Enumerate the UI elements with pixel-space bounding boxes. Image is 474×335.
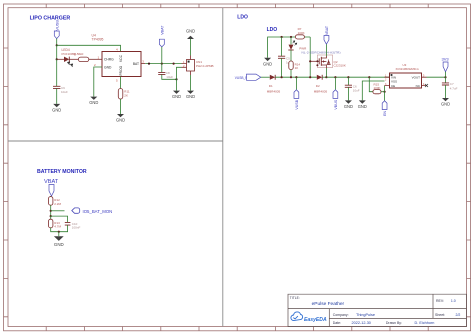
LED PWR (288, 37, 307, 50)
node (C5 bottom) (281, 76, 283, 78)
net flag 3V3 (442, 57, 450, 72)
net flag VUSB (top, LIPO) (54, 20, 59, 39)
ground (left end of rail) (263, 58, 272, 67)
node (VBAT branch) (161, 63, 163, 65)
node (CE/EN junction) (384, 91, 386, 93)
EasyEDA logo (291, 312, 327, 323)
svg-text:GND: GND (172, 94, 181, 99)
ground (below C8/CN1 pin2) (172, 91, 181, 100)
ground (below U3 VSS) (358, 100, 367, 109)
section title LIPO CHARGER (30, 16, 71, 22)
wire VUSB_P to D1 (261, 76, 270, 78)
wire Q2 drain to row (325, 68, 327, 77)
ground (battery monitor) (54, 236, 64, 247)
svg-text:CHRG: CHRG (104, 58, 114, 62)
svg-text:GND: GND (263, 61, 272, 66)
svg-text:VUSB: VUSB (295, 99, 299, 109)
net flag VUSB (below row) (294, 77, 299, 109)
svg-text:TP4095: TP4095 (92, 38, 104, 42)
svg-text:VUSB: VUSB (54, 20, 59, 31)
svg-text:100K: 100K (374, 86, 381, 90)
svg-text:CE: CE (391, 84, 395, 88)
svg-text:IO5_BAT_MON: IO5_BAT_MON (83, 209, 113, 214)
resistor R11 (118, 89, 130, 100)
wire R12 to divider node (50, 205, 52, 216)
svg-text:2/2: 2/2 (456, 313, 461, 317)
node (R14 bottom) (290, 76, 292, 78)
svg-text:EasyEDA: EasyEDA (304, 317, 327, 323)
pin number 2 (U4 GND) (94, 63, 96, 67)
node (BAT pin end) (148, 63, 150, 65)
svg-text:5: 5 (116, 79, 118, 83)
svg-text:VUSB_P: VUSB_P (235, 76, 248, 80)
net flag VBAT (battery monitor) (44, 179, 59, 196)
wire node B down to C9 (56, 59, 58, 86)
svg-text:VBUS: VBUS (334, 99, 338, 109)
svg-text:10uF: 10uF (353, 88, 360, 92)
ground (below R11) (116, 114, 125, 123)
svg-text:GND: GND (104, 65, 112, 69)
label LED4 / part number (62, 48, 84, 56)
svg-text:REV:: REV: (436, 299, 444, 303)
capacitor C7 (442, 77, 458, 98)
capacitor C8 (158, 71, 173, 79)
svg-text:VCC: VCC (119, 54, 123, 62)
wire VUSB flag to junction A (56, 39, 58, 46)
title block texts (290, 296, 461, 325)
svg-text:EN: EN (383, 111, 387, 116)
svg-text:GND: GND (52, 107, 61, 112)
svg-text:Sheet:: Sheet: (435, 313, 445, 317)
wire EN flag stub (384, 92, 386, 101)
section title LDO (inner) (267, 27, 278, 33)
svg-text:ePulse Feather: ePulse Feather (312, 301, 345, 307)
wire VBAT flag to BAT net (161, 47, 163, 64)
svg-text:4.7uF: 4.7uF (450, 86, 458, 90)
svg-text:D. Eichhorn: D. Eichhorn (415, 321, 435, 325)
net flag VBUS (below row) (333, 77, 338, 109)
svg-text:NL-2-SDRCH8064-A3(TR): NL-2-SDRCH8064-A3(TR) (302, 51, 341, 55)
wire junction A down to LED row (56, 45, 58, 59)
capacitor C5 (278, 37, 291, 77)
node (C6 on row) (347, 76, 349, 78)
ground (below CN1) (186, 91, 195, 100)
svg-text:VSS: VSS (391, 79, 397, 83)
svg-text:10uF: 10uF (166, 75, 173, 79)
wire U3 VSS to ground (362, 81, 384, 100)
wire 3V3 flag down (445, 72, 447, 77)
wire U4 PROG to R11 (120, 77, 122, 89)
node (C8/CN1 gnd join) (175, 78, 177, 80)
net label IO5_BAT_MON (72, 208, 112, 214)
pin number 1 (U4 CHRG) (98, 55, 100, 59)
node (monitor tap) (50, 210, 52, 212)
wire C10 branch top (51, 216, 68, 222)
node (Q2 gate on rail drop) (309, 60, 311, 62)
transistor Q2 (310, 55, 346, 68)
node B junction (56, 58, 58, 60)
svg-text:U3: U3 (403, 63, 407, 67)
svg-text:MBR4005: MBR4005 (314, 89, 328, 93)
svg-text:4.7M: 4.7M (54, 225, 61, 229)
node (CN1 branch) (173, 63, 175, 65)
svg-text:2K: 2K (124, 94, 128, 98)
svg-text:Company:: Company: (333, 313, 349, 317)
net flag VBAT (LDO) (324, 25, 329, 44)
svg-text:1.0: 1.0 (451, 299, 456, 303)
svg-text:GND: GND (186, 29, 195, 34)
svg-text:GND: GND (116, 118, 125, 123)
node A junction (56, 44, 58, 46)
svg-text:GND: GND (441, 102, 450, 107)
section title BATTERY MONITOR (37, 169, 87, 175)
svg-text:XC6210B332MR-G: XC6210B332MR-G (396, 67, 419, 71)
resistor R13 (49, 216, 62, 228)
ground (below C9) (52, 104, 61, 112)
svg-text:2: 2 (385, 78, 387, 81)
ground (below U4 GND pin) (89, 97, 98, 105)
wire VCC rail to U4 top (57, 45, 121, 51)
svg-text:PH2.0-2PMB: PH2.0-2PMB (196, 64, 214, 68)
net flag EN (382, 101, 387, 116)
svg-text:GND: GND (54, 242, 64, 247)
node (C5 on rail) (281, 36, 283, 38)
wire BAT net (141, 63, 182, 65)
wire rail right corner down (309, 37, 311, 77)
svg-text:1K: 1K (295, 66, 299, 70)
wire R11 to ground (120, 99, 122, 114)
label Q2 part number (302, 51, 341, 55)
wire BAT net to C8 (161, 64, 163, 73)
node (PWR LED on rail) (290, 36, 292, 38)
svg-text:GND: GND (344, 104, 353, 109)
wire CN1 top pin to inverted ground (190, 39, 192, 56)
wire tap to net label (51, 210, 65, 212)
svg-text:3V3: 3V3 (442, 57, 450, 62)
svg-text:LDO: LDO (237, 14, 248, 20)
pin number 4 (U4 VCC) (116, 47, 118, 51)
svg-text:MBR4005: MBR4005 (267, 89, 281, 93)
diode D1 (267, 75, 281, 94)
svg-text:PROG: PROG (119, 65, 123, 75)
svg-text:2.2M: 2.2M (54, 202, 61, 206)
svg-text:ThingPulse: ThingPulse (356, 313, 375, 317)
svg-text:VBAT: VBAT (325, 25, 329, 35)
op-amp U3 LDO IC body (385, 63, 427, 88)
section title LDO (outer) (237, 14, 248, 20)
ground (below C6) (344, 100, 353, 109)
resistor R14 (289, 50, 301, 77)
node (divider top) (50, 215, 52, 217)
ground (inverted, above CN1) (186, 29, 195, 39)
connector CN1 (182, 56, 214, 76)
pin number 3 (U4 BAT) (142, 60, 144, 64)
wire U3 VOUT to 3V3 (427, 76, 446, 78)
svg-text:TITLE:: TITLE: (290, 296, 300, 300)
wire CN1 bottom pin to ground (190, 75, 192, 91)
wire gnd stem (58, 232, 60, 237)
svg-text:D1: D1 (269, 84, 273, 88)
svg-text:VOUT: VOUT (412, 76, 421, 80)
svg-text:100nF: 100nF (72, 226, 81, 230)
svg-text:100K: 100K (298, 31, 305, 35)
wire output row to U3 (326, 76, 389, 78)
capacitor C10 (65, 222, 81, 230)
wire VUSB row (275, 76, 317, 78)
op-amp U4 charger IC body (102, 52, 141, 77)
label U4 TP4095 (92, 34, 104, 42)
wire gnd rail (top of LDO) (268, 37, 311, 58)
net flag VBAT (LIPO) (159, 25, 164, 47)
pin number 5 (U4 PROG) (116, 79, 118, 83)
wire C9 to ground (56, 88, 58, 104)
svg-text:VBAT: VBAT (160, 25, 164, 35)
diode D2 (314, 75, 328, 94)
svg-text:D2: D2 (316, 84, 320, 88)
wire C8 to ground join (162, 74, 177, 79)
node (VBUS flag stub) (334, 76, 336, 78)
node (Q2 drain on row) (325, 76, 327, 78)
resistor R12 (49, 196, 62, 206)
svg-text:10uF: 10uF (61, 90, 68, 94)
svg-text:GND: GND (89, 100, 98, 105)
svg-text:2022-12-30: 2022-12-30 (352, 321, 371, 325)
resistor R15 (369, 77, 384, 94)
svg-text:LDO: LDO (267, 27, 278, 33)
svg-text:Date:: Date: (333, 321, 341, 325)
no-connect X on U3 NC pin (425, 84, 428, 87)
svg-text:PCF1005▮-56k0: PCF1005▮-56k0 (62, 52, 84, 56)
wire CN1 pin2 to ground join (177, 67, 182, 90)
capacitor C9 (53, 86, 68, 94)
title block (288, 294, 467, 326)
wire VBAT to Q2 source (325, 44, 327, 56)
svg-text:GND: GND (358, 104, 367, 109)
capacitor C6 (345, 77, 360, 100)
LED LED4 (57, 57, 73, 67)
pin numbers U3 (385, 75, 425, 86)
svg-text:2: 2 (94, 63, 96, 67)
wire CE junction up (384, 86, 386, 92)
section divider lines (8, 8, 223, 327)
svg-text:BAT: BAT (133, 62, 139, 66)
node (rail corner bottom) (309, 76, 311, 78)
resistor (LED series) (69, 57, 102, 62)
svg-text:CJ2310K: CJ2310K (334, 64, 346, 68)
svg-text:3: 3 (142, 60, 144, 64)
wire divider bottom loop (51, 225, 68, 232)
wire U4 GND pin to ground (94, 67, 102, 97)
node (Q2 gate bar) (316, 60, 318, 66)
svg-text:GND: GND (186, 94, 195, 99)
resistor R7 (295, 27, 304, 39)
ground (below C7) (441, 98, 450, 107)
node (VOUT junction) (444, 76, 446, 78)
svg-text:1: 1 (98, 55, 100, 59)
svg-text:BATTERY MONITOR: BATTERY MONITOR (37, 169, 87, 175)
net flag VUSB_P (235, 74, 261, 80)
node (R15 branch on row) (368, 76, 370, 78)
node (VUSB flag stub) (295, 76, 297, 78)
svg-text:LIPO CHARGER: LIPO CHARGER (30, 16, 71, 22)
svg-text:Drawn By:: Drawn By: (386, 321, 402, 325)
node (gnd tap) (58, 231, 60, 233)
svg-text:4: 4 (116, 47, 118, 51)
